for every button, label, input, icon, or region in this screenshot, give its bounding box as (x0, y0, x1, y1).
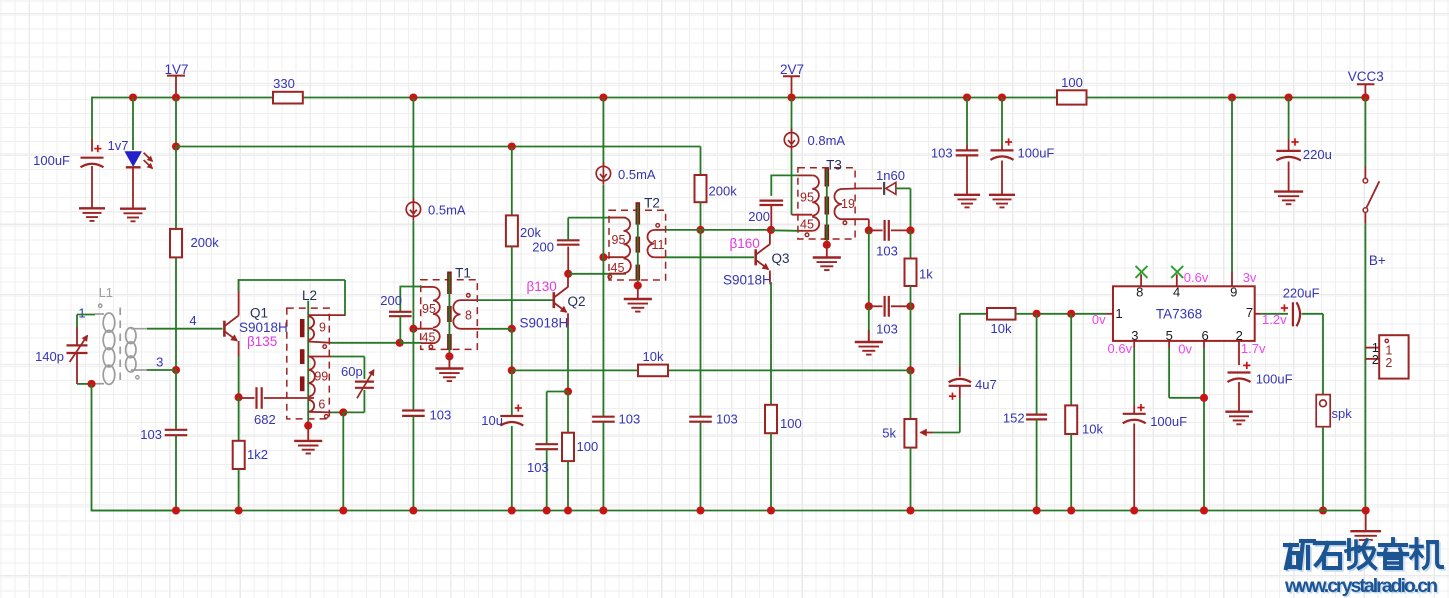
label T3 (826, 157, 842, 172)
wire rail end ground stub (1365, 511, 1367, 531)
svg-text:200k: 200k (709, 183, 738, 198)
node junction rail 5k (906, 506, 914, 514)
wire second supply rail (176, 146, 701, 148)
svg-text:103: 103 (430, 408, 452, 423)
wire L2 out to 60p bottom (343, 390, 364, 412)
svg-text:0.5mA: 0.5mA (428, 203, 466, 218)
node junction 220u branch (1285, 93, 1293, 101)
resistor R 100 Q3 emitter (765, 405, 777, 511)
label 682 (254, 412, 276, 427)
pin number 5 (1166, 328, 1173, 343)
svg-text:S9018H: S9018H (239, 320, 288, 335)
wire diode out corner (896, 188, 911, 230)
wire meter2 down to T2 tap (602, 185, 604, 257)
wire ground rail (92, 510, 1366, 512)
node junction pin9 branch (1228, 93, 1236, 101)
svg-text:1n60: 1n60 (876, 168, 905, 183)
capacitor C 100uF supply filter (991, 98, 1014, 195)
wire pin4 to Q1 base (147, 328, 223, 330)
wire L2 top corner down (344, 280, 346, 316)
capacitor C 220u decoupling (1276, 98, 1300, 192)
L2 winding 99 (308, 357, 331, 397)
node junction det right (906, 226, 914, 234)
svg-text:4: 4 (1173, 285, 1180, 300)
svg-text:103: 103 (716, 412, 738, 427)
wire top rail to meter2 (602, 98, 604, 166)
L1 polarity dot bottom (136, 376, 139, 379)
svg-text:B+: B+ (1369, 253, 1386, 268)
label 100uF pin3 (1150, 414, 1187, 429)
L1 secondary winding (126, 328, 147, 372)
wire T1 sec bottom (480, 328, 512, 330)
current meter 0.8mA (784, 129, 798, 151)
wire 200k to T2 sec (700, 202, 702, 230)
node junction L1 bottom (87, 380, 95, 388)
ground under T1 (435, 369, 463, 382)
wire L2 ground stub (307, 426, 309, 440)
label 95 T2 (612, 233, 626, 247)
T3 tap lead (792, 214, 813, 216)
capacitor C 152 (1026, 314, 1047, 511)
T3 dashed box (798, 168, 855, 239)
label T2 (644, 195, 660, 210)
wire Q3 emitter down (770, 271, 771, 406)
T3 primary 95 (798, 175, 819, 215)
node junction rail 100a (564, 506, 572, 514)
T1 polarity dot secondary (467, 294, 471, 298)
pin 1 connector stub (1365, 347, 1379, 349)
svg-text:0v: 0v (1092, 312, 1106, 327)
LED D1 indicator (125, 152, 141, 208)
resistor R 10k to pin1 (987, 308, 1016, 336)
node junction pin5 pin6 (1200, 394, 1208, 402)
ground under T3 (813, 258, 841, 271)
L2 core bar (300, 319, 305, 391)
wire 6 bottom lead (331, 411, 343, 413)
pin 2 stub (1238, 341, 1240, 352)
L2 winding 9 bottom lead (308, 342, 331, 343)
node junction 100uF filter branch (998, 93, 1006, 101)
svg-text:220uF: 220uF (1283, 286, 1320, 301)
pin 1 stub (1107, 313, 1113, 315)
svg-text:200: 200 (748, 209, 770, 224)
T2 polarity dot primary (608, 275, 612, 279)
transistor Q3 S9018H (756, 244, 770, 269)
label 1 connector (1385, 343, 1392, 357)
capacitor C 103 Q2 emitter (535, 444, 558, 510)
IC U1 TA7368 body (1113, 286, 1255, 341)
pin number 9 (1230, 285, 1237, 300)
capacitor C 103 x700 (689, 230, 712, 511)
wire L2 out down to rail (342, 412, 344, 510)
node junction second rail start (172, 142, 180, 150)
svg-text:β135: β135 (247, 334, 277, 349)
svg-text:11: 11 (652, 238, 665, 252)
capacitor C 200 T2 tank (557, 218, 580, 274)
wire L1 bottom down to ground rail (92, 384, 177, 512)
pin 2 connector stub (1365, 358, 1379, 360)
label 200 T1 tank (380, 293, 402, 308)
svg-text:5k: 5k (882, 426, 896, 441)
node junction pin3 L1 (172, 366, 180, 374)
svg-text:100: 100 (1061, 75, 1083, 90)
wire T2sec to Q3 collector (701, 229, 772, 231)
wire 20k down (511, 246, 513, 328)
svg-text:140p: 140p (35, 349, 64, 364)
label 45 T2 (611, 261, 625, 275)
T3 primary 45 (798, 217, 819, 231)
node junction rail 10k3 (1067, 506, 1075, 514)
node junction Q1 emitter (235, 393, 243, 401)
node junction T1 ground (445, 352, 453, 360)
resistor R 1k detector (905, 230, 917, 306)
node junction 1V7 on rail (172, 93, 180, 101)
svg-text:103: 103 (931, 146, 953, 161)
wire Q3 collector up (769, 230, 771, 245)
svg-text:8: 8 (465, 308, 472, 322)
svg-text:100uF: 100uF (33, 153, 70, 168)
wire T3 primary bottom (771, 229, 798, 232)
node junction Q2 emitter (564, 387, 572, 395)
L2 polarity dot 9 (323, 345, 327, 349)
ground under 100uF filter (989, 195, 1015, 208)
label 0.5mA second (618, 167, 656, 182)
label 0.6v pin4 (1184, 270, 1209, 285)
node junction T2 ground (634, 281, 642, 289)
speaker spk (1316, 395, 1330, 511)
wire meter1 down (412, 221, 414, 329)
pin 3 stub (1133, 341, 1135, 348)
node junction T1 tap (409, 325, 417, 333)
node junction rail 103d (696, 506, 704, 514)
X mark pin 8 (1136, 266, 1148, 278)
ground under LED (120, 209, 146, 222)
wire T2 sec bottom to Q3 base (666, 256, 755, 258)
wire T2 tap down (602, 257, 604, 417)
svg-text:6: 6 (1201, 328, 1208, 343)
capacitor C 4u7 (949, 314, 971, 400)
resistor R 10k vertical (1065, 314, 1077, 511)
node junction rail 103b (543, 506, 551, 514)
svg-text:45: 45 (422, 330, 436, 344)
svg-text:2: 2 (1385, 356, 1392, 370)
ground under 220u (1274, 192, 1303, 205)
svg-text:103: 103 (876, 244, 898, 259)
wire Q1 emitter down (238, 341, 240, 397)
label 1k2 (247, 447, 268, 462)
label 8 T1 (465, 308, 472, 322)
svg-text:2: 2 (1372, 353, 1379, 367)
wire 10k2 to ic (1016, 313, 1107, 315)
T2 dashed box (609, 210, 666, 280)
svg-text:β130: β130 (527, 279, 557, 294)
svg-text:95: 95 (800, 190, 814, 204)
svg-text:19: 19 (841, 197, 855, 211)
label 100 Q3 emitter (780, 416, 802, 431)
label 0v pin5 (1178, 342, 1192, 357)
wire top rail to meter3 (791, 98, 793, 132)
wire 1V7 to second rail (175, 98, 177, 147)
label 100uF (33, 153, 70, 168)
T2 ground stub (637, 286, 639, 299)
current meter 0.5mA first (406, 198, 420, 220)
label pin 4 L1 (189, 313, 196, 328)
wire tank to T1 bottom (400, 342, 422, 344)
power flag 1V7 (164, 62, 188, 93)
capacitor C 100uF left filter (81, 139, 104, 208)
label 9 turns (319, 321, 326, 335)
label 45 T1 (422, 330, 436, 344)
label T1 (455, 265, 471, 280)
transistor Q1 S9018H (224, 316, 238, 341)
T1 dashed box (421, 280, 478, 350)
diode D 1n60 (884, 182, 896, 195)
label 45 T3 (800, 218, 814, 232)
svg-text:103: 103 (527, 460, 549, 475)
label 1.2v pin7 (1262, 312, 1287, 327)
svg-text:L2: L2 (302, 288, 317, 303)
svg-text:103: 103 (140, 427, 162, 442)
L1 polarity dot top (99, 304, 102, 307)
L2 winding 6 (308, 400, 331, 413)
pin 8 stub (1140, 274, 1142, 286)
svg-text:β160: β160 (730, 236, 760, 251)
svg-text:1k: 1k (919, 267, 933, 282)
node junction 2V7 on rail (787, 93, 795, 101)
node junction tank 200 (396, 339, 404, 347)
wire wiper to 4u7 (933, 398, 960, 433)
T3 secondary 19 (834, 188, 868, 219)
node junction T2 tap (599, 253, 607, 261)
pin number 3 (1131, 328, 1138, 343)
svg-text:0v: 0v (1178, 342, 1192, 357)
svg-text:6: 6 (318, 397, 325, 411)
capacitor C 103 supply filter (956, 98, 979, 195)
capacitor C 103 x603 (592, 417, 615, 511)
label beta160 (730, 236, 760, 251)
T2 primary 95 (609, 218, 630, 258)
wire 140p bottom corner (77, 383, 92, 385)
svg-text:Q3: Q3 (771, 251, 789, 266)
svg-text:Q1: Q1 (250, 306, 268, 321)
svg-text:S9018H: S9018H (723, 273, 772, 288)
wire 99 top to 60p (331, 357, 364, 380)
T2 center line (637, 204, 639, 286)
L2 tap 99-6 (309, 397, 315, 399)
svg-text:95: 95 (422, 302, 436, 316)
label 100 Q2 emitter (577, 439, 599, 454)
svg-text:1: 1 (1115, 306, 1122, 321)
label pin 3 L1 (156, 355, 163, 370)
power flag 2V7 (780, 62, 804, 93)
node junction volume top (906, 366, 914, 374)
label 152 (1003, 410, 1025, 425)
L2 center line (307, 301, 309, 426)
capacitor C 103 under T1 (402, 329, 425, 511)
capacitor C 60p variable (355, 370, 374, 398)
svg-text:7: 7 (1246, 305, 1253, 320)
node junction 0.5mA branch 2 (599, 93, 607, 101)
svg-text:99: 99 (314, 369, 328, 383)
label 95 T1 (422, 302, 436, 316)
node junction rail L2 out (339, 506, 347, 514)
svg-text:0.5mA: 0.5mA (618, 167, 656, 182)
svg-text:10u: 10u (481, 413, 503, 428)
label 60p (341, 364, 363, 379)
node junction agc left (865, 302, 873, 310)
label 100uF supply filter (1018, 146, 1055, 161)
node junction 20k branch (508, 142, 516, 150)
svg-text:Q2: Q2 (567, 294, 585, 309)
svg-text:1k2: 1k2 (247, 447, 268, 462)
wire T2 sec top lead (666, 229, 701, 231)
node junction rail 100uF3 (1130, 506, 1138, 514)
svg-text:TA7368: TA7368 (1156, 307, 1202, 322)
resistor R 1k2 Q1 emitter (233, 397, 245, 510)
svg-text:spk: spk (1332, 406, 1353, 421)
node junction rail 100b (767, 506, 775, 514)
capacitor C 103 detector top (869, 220, 911, 241)
label Q3 (771, 251, 789, 266)
label 11 T2 (652, 238, 665, 252)
label 103 detector bottom (876, 322, 898, 337)
wire 10k rail (512, 369, 911, 371)
node junction 10u top (508, 366, 516, 374)
svg-text:www.crystalradio.cn: www.crystalradio.cn (1284, 575, 1438, 597)
T2 tap lead (603, 256, 623, 258)
label B+ (1369, 253, 1386, 268)
X mark pin 4 (1171, 266, 1183, 278)
svg-text:100uF: 100uF (1256, 372, 1293, 387)
pin 7 stub (1255, 313, 1262, 315)
svg-text:103: 103 (876, 322, 898, 337)
pin number 7 (1246, 305, 1253, 320)
node junction T3 ground (823, 241, 831, 249)
node junction 152 top (1033, 310, 1041, 318)
node junction rail 103a (409, 506, 417, 514)
label 200 T2 tank (532, 240, 554, 255)
pin 6 stub (1203, 341, 1205, 348)
label S9018H Q1 (239, 320, 288, 335)
label 200 T3 tank (748, 209, 770, 224)
capacitor C 103 under L1 (165, 370, 188, 511)
T1 primary 95 (421, 287, 440, 328)
svg-text:1: 1 (78, 305, 85, 320)
T3 polarity dot primary (805, 233, 809, 237)
wire det left down (868, 230, 870, 306)
node junction rail 10u (508, 506, 516, 514)
node junction L2 out (339, 408, 347, 416)
svg-text:9: 9 (1230, 285, 1237, 300)
svg-text:200k: 200k (191, 235, 220, 250)
label 1.7v pin2 (1241, 341, 1266, 356)
label 1v7 LED voltage (108, 138, 129, 153)
node junction rail 152 (1033, 506, 1041, 514)
capacitor C 100uF pin2 (1228, 352, 1251, 411)
capacitor C 10u (500, 370, 523, 510)
watermark chinese text (1285, 539, 1444, 570)
connector inner circle (1385, 339, 1388, 342)
wire left corner down from top rail (91, 97, 93, 139)
svg-text:220u: 220u (1303, 147, 1332, 162)
label S9018H Q3 (723, 273, 772, 288)
wire VCC3 down to switch (1364, 98, 1366, 168)
node junction rail end (1362, 506, 1370, 514)
svg-text:100: 100 (577, 439, 599, 454)
resistor R 200k detector (695, 175, 738, 202)
svg-text:100uF: 100uF (1018, 146, 1055, 161)
wire 511 down to 10k rail (511, 329, 513, 371)
label 95 T3 (800, 190, 814, 204)
wire pin5 corner (1169, 348, 1204, 398)
label 103 detector top (876, 244, 898, 259)
T1 secondary 8 (453, 300, 480, 329)
label 10k vertical (1082, 421, 1103, 436)
wire T3 primary top corner (770, 174, 798, 176)
label 0v pin1 (1092, 312, 1106, 327)
label Q1 (250, 306, 268, 321)
capacitor C 200 T3 tank (760, 175, 784, 230)
svg-text:1.7v: 1.7v (1241, 341, 1266, 356)
label 103 under T1 (430, 408, 452, 423)
node junction LED branch (129, 93, 137, 101)
wire det right down to rail10k (910, 306, 912, 370)
node junction T1 sec bottom (508, 325, 516, 333)
svg-text:0.6v: 0.6v (1108, 341, 1133, 356)
label 0.6v pin3 (1108, 341, 1133, 356)
node junction det left (865, 226, 873, 234)
resistor R 20k (506, 147, 542, 247)
LED arrows (144, 153, 153, 169)
resistor R 330 top rail (273, 76, 303, 104)
T2 primary 45 (609, 259, 631, 274)
wire meter3 down to T3 tap (791, 151, 793, 215)
wire T3 sec top to diode (860, 187, 882, 189)
pin number 1 connector (1372, 341, 1379, 355)
wire B+ line down (1364, 223, 1366, 511)
pin number 6 (1201, 328, 1208, 343)
svg-text:4u7: 4u7 (975, 377, 997, 392)
wire Q1 collector to L2 top (238, 279, 345, 281)
pin number 8 (1136, 285, 1143, 300)
label 0.8mA (808, 133, 846, 148)
label 3v pin9 (1243, 270, 1257, 285)
svg-text:3: 3 (156, 355, 163, 370)
svg-text:9: 9 (319, 321, 326, 335)
wire volume top to pot (910, 370, 912, 419)
svg-text:3v: 3v (1243, 270, 1257, 285)
svg-text:8: 8 (1136, 285, 1143, 300)
ground under L2 (294, 441, 322, 454)
wire Q2 emitter L to 103 (547, 392, 568, 445)
inductor L1 label (99, 285, 113, 300)
svg-text:100: 100 (780, 416, 802, 431)
T3 core bar (824, 169, 829, 241)
ground under pin2 cap (1225, 412, 1252, 425)
watermark url (1284, 575, 1440, 598)
wire L1 top to 140p (77, 315, 95, 328)
resistor R 100 Q2 emitter (562, 392, 574, 511)
T2 core bar (635, 202, 640, 280)
label 4u7 (975, 377, 997, 392)
wire Q1 collector up (238, 279, 240, 315)
wire top rail to meter1 (412, 98, 414, 202)
svg-text:0.6v: 0.6v (1184, 270, 1209, 285)
ground main right (1350, 531, 1381, 544)
wire 4u7 top corner (960, 313, 987, 315)
capacitor C 220uF output (1261, 302, 1323, 326)
T1 core bar (447, 272, 452, 351)
